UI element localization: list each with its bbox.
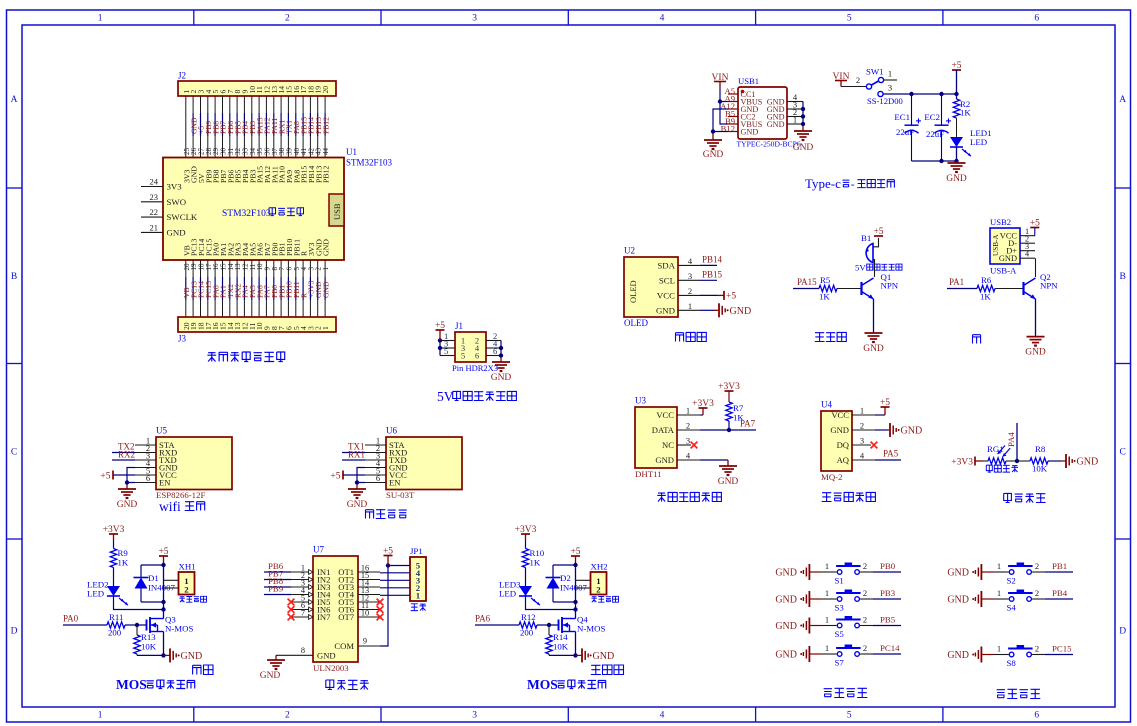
svg-text:OT7: OT7: [338, 612, 354, 622]
ground GND power rail: [946, 161, 967, 184]
svg-text:10: 10: [361, 609, 369, 618]
svg-text:PB15: PB15: [702, 269, 723, 279]
svg-text:U4: U4: [821, 400, 832, 410]
title display: [676, 332, 707, 341]
svg-text:SCL: SCL: [659, 275, 675, 285]
switch S7 pushbutton: [835, 645, 861, 668]
title buzzer: [815, 332, 847, 341]
wire R6 to Q2 base: [995, 288, 1024, 290]
ground GND U4 sideways: [875, 423, 922, 437]
connector USB2 USB-A: [990, 217, 1020, 276]
svg-text:4: 4: [660, 14, 665, 24]
wire net RX1: [342, 450, 365, 461]
svg-text:6: 6: [493, 346, 497, 356]
wire Q4 source to ground rail: [575, 632, 577, 656]
svg-text:SU-03T: SU-03T: [386, 490, 415, 500]
ground GND S7: [775, 646, 821, 662]
wire net PA4 vertical: [1006, 423, 1017, 461]
svg-text:GND: GND: [901, 426, 923, 437]
svg-text:1: 1: [98, 14, 103, 24]
svg-text:2: 2: [285, 711, 290, 721]
net label PA6: [475, 614, 519, 626]
junction PA4 divider: [1015, 459, 1019, 463]
svg-text:PA5: PA5: [883, 449, 899, 459]
svg-text:GND: GND: [491, 373, 512, 383]
wire net PB14: [700, 254, 723, 265]
svg-text:IN7: IN7: [317, 612, 331, 622]
svg-text:GND: GND: [947, 595, 969, 606]
svg-text:wifi: wifi: [159, 499, 181, 514]
wire XH1 pin2: [164, 587, 179, 589]
junction VIN-VBUS: [718, 99, 722, 103]
svg-text:2: 2: [184, 585, 189, 595]
svg-text:1: 1: [997, 643, 1001, 653]
U5 pin stubs: [135, 436, 156, 484]
svg-text:J3: J3: [178, 334, 187, 344]
wire GND pads to ground: [713, 109, 728, 140]
svg-text:PA15: PA15: [797, 277, 817, 287]
svg-text:2: 2: [1035, 643, 1039, 653]
capacitor EC2 22uF: [924, 94, 951, 161]
junctions bottom rail: [939, 159, 958, 163]
svg-text:1: 1: [997, 561, 1001, 571]
wire S8 to net PC15: [1032, 643, 1073, 654]
wire LED2 to drain rail: [114, 596, 164, 610]
wire +5 to D2: [553, 564, 576, 566]
IC U3 DHT11: [635, 396, 677, 480]
connector J1 Pin HDR2X3: [452, 321, 498, 373]
IC U1 STM32F103 minimal system: [163, 147, 393, 260]
LED LED3: [499, 580, 540, 606]
svg-text:A: A: [1119, 95, 1126, 105]
svg-text:2: 2: [1035, 588, 1039, 598]
svg-text:SS-12D00: SS-12D00: [867, 96, 903, 106]
svg-text:LED: LED: [499, 589, 516, 599]
USB port box on U1: [329, 194, 344, 226]
junction +5 COM node: [386, 563, 390, 567]
svg-text:PB3: PB3: [880, 588, 896, 598]
svg-text:USB1: USB1: [738, 76, 759, 86]
wire S7 to net PC14: [860, 643, 901, 654]
power +5 J1: [435, 321, 445, 341]
ground GND S4: [947, 591, 993, 607]
svg-text:GND: GND: [730, 306, 752, 317]
title MOS control output: [527, 677, 606, 692]
svg-text:Pin HDR2X3: Pin HDR2X3: [452, 363, 498, 373]
wire USB1 shield bus: [802, 102, 804, 132]
net labels J3 bus: [182, 280, 330, 298]
svg-text:COM: COM: [334, 641, 354, 651]
svg-text:GND: GND: [322, 239, 331, 256]
svg-text:PB4: PB4: [1052, 588, 1068, 598]
svg-text:U2: U2: [624, 246, 635, 256]
svg-text:5V: 5V: [855, 263, 866, 273]
LED LED2: [87, 580, 128, 606]
svg-text:GND: GND: [775, 621, 797, 632]
svg-text:3: 3: [686, 436, 690, 446]
title MCU minimal system: [207, 352, 284, 362]
U1 bottom pin numbers 20-1: [183, 263, 330, 271]
switch S1 pushbutton: [835, 563, 861, 586]
svg-text:GND: GND: [946, 174, 967, 184]
svg-text:C: C: [11, 447, 17, 457]
svg-text:PA6: PA6: [475, 614, 491, 624]
svg-text:1: 1: [321, 326, 330, 330]
power flag VIN at switch: [833, 72, 850, 87]
svg-text:1: 1: [686, 406, 690, 416]
svg-text:1: 1: [793, 115, 797, 125]
svg-text:J2: J2: [178, 71, 186, 81]
svg-text:J1: J1: [455, 321, 463, 331]
svg-text:24: 24: [150, 177, 159, 187]
svg-text:B: B: [1120, 272, 1126, 282]
svg-text:3V3: 3V3: [167, 182, 183, 192]
svg-text:D: D: [11, 627, 18, 637]
svg-text:D2: D2: [560, 573, 571, 583]
svg-text:U7: U7: [313, 545, 324, 555]
svg-text:S2: S2: [1007, 576, 1016, 586]
wire J1 left bus to +5: [439, 341, 441, 356]
svg-text:PA4: PA4: [1006, 432, 1016, 447]
power +3V3 U3 VCC: [692, 399, 714, 415]
power +5 stepper: [383, 546, 393, 565]
svg-text:3: 3: [860, 436, 864, 446]
svg-text:S4: S4: [1007, 603, 1017, 613]
svg-text:MOS: MOS: [527, 677, 558, 692]
svg-text:6: 6: [1034, 711, 1039, 721]
junction U6 EN: [355, 480, 359, 484]
svg-text:RX2: RX2: [118, 450, 135, 460]
svg-text:GND: GND: [947, 568, 969, 579]
wire GND to S8: [993, 643, 1009, 654]
svg-text:PB12: PB12: [321, 117, 330, 134]
svg-text:D: D: [1119, 627, 1126, 637]
ground GND Q3 sideways: [164, 648, 203, 662]
connector J3 pin header: [178, 317, 336, 344]
power +5 U6: [330, 471, 365, 482]
svg-text:10K: 10K: [141, 642, 157, 652]
svg-text:PA1: PA1: [949, 277, 964, 287]
wire JP1 pin5 to +5: [388, 565, 410, 567]
connector J2 pin header: [178, 71, 336, 97]
svg-text:6: 6: [1034, 14, 1039, 24]
svg-text:DQ: DQ: [837, 440, 850, 450]
junction LED rail: [161, 607, 165, 611]
wire Q3 drain connect: [163, 618, 165, 620]
ground GND S1: [775, 564, 821, 580]
svg-text:ULN2003: ULN2003: [313, 663, 349, 673]
title temp humidity sensor: [657, 492, 721, 501]
wire U3 GND to ground: [700, 460, 728, 466]
svg-text:1: 1: [416, 591, 420, 601]
svg-text:200: 200: [108, 628, 122, 638]
wire R11 to gate: [125, 624, 147, 626]
wire R12 to gate: [537, 624, 559, 626]
ground GND light divider: [1062, 454, 1098, 468]
svg-text:2: 2: [860, 421, 864, 431]
junction +5 node: [161, 563, 165, 567]
wire Q1 emitter to ground: [873, 299, 875, 333]
power +5 Q3: [158, 547, 168, 565]
svg-text:2: 2: [688, 286, 692, 296]
svg-text:GND: GND: [775, 650, 797, 661]
svg-text:7: 7: [301, 609, 305, 618]
svg-text:2: 2: [863, 614, 867, 624]
wire Q3 source to ground rail: [163, 632, 165, 656]
svg-text:U6: U6: [386, 426, 397, 436]
wire net RX2: [112, 450, 135, 461]
svg-text:GND: GND: [793, 143, 814, 153]
USB2 pin stubs: [1020, 227, 1035, 259]
USB1 left pads A5-B12 labels: [720, 86, 738, 134]
svg-text:AQ: AQ: [837, 455, 850, 465]
svg-text:5: 5: [461, 352, 465, 361]
svg-text:3: 3: [888, 83, 892, 93]
wire R5 to Q1 base: [837, 288, 862, 290]
ground GND lamp: [1025, 337, 1046, 358]
ground GND J1: [491, 362, 512, 383]
svg-text:OLED: OLED: [624, 318, 648, 328]
net label PA1: [947, 277, 977, 289]
ground GND Q4 sideways: [576, 648, 615, 662]
svg-text:GND: GND: [181, 651, 203, 662]
wire Q4 drain connect: [575, 618, 577, 620]
svg-text:+5: +5: [100, 471, 110, 481]
svg-text:1: 1: [688, 301, 692, 311]
svg-text:1: 1: [997, 588, 1001, 598]
ground GND U5: [117, 489, 138, 510]
svg-text:GND: GND: [260, 671, 281, 681]
svg-text:N-MOS: N-MOS: [577, 624, 605, 634]
wire SW1 pin1 stub: [884, 69, 897, 81]
wires nets PB6-PB9: [264, 561, 291, 595]
junction gate node: [547, 623, 551, 627]
wire main vertical to Q3 drain: [163, 565, 165, 619]
title Type-C power circuit: [805, 176, 894, 191]
svg-text:3: 3: [688, 271, 692, 281]
svg-text:GND: GND: [741, 127, 759, 136]
junction LED rail: [573, 607, 577, 611]
svg-text:1K: 1K: [118, 558, 129, 568]
svg-text:GND: GND: [117, 500, 138, 510]
U3 pin stubs: [677, 406, 700, 461]
title independent buttons left: [824, 688, 868, 697]
ground GND buzzer: [863, 333, 884, 354]
IC U4 MQ-2: [821, 400, 852, 483]
junction GND pads: [711, 129, 715, 133]
junctions power node: [909, 92, 958, 96]
svg-text:NC: NC: [662, 440, 674, 450]
wire USB2 GND to Q2 collector: [1035, 258, 1037, 277]
junction diode rail: [161, 600, 165, 604]
switch S3 pushbutton: [835, 590, 861, 613]
wire net TX1: [342, 442, 365, 453]
svg-text:A: A: [11, 95, 18, 105]
buzzer B1 5V active: [855, 233, 902, 273]
junction DATA R7: [727, 428, 731, 432]
switch S8 pushbutton: [1007, 645, 1033, 668]
wire D2 bottom rail: [553, 601, 576, 603]
svg-text:S3: S3: [835, 603, 845, 613]
svg-text:GND: GND: [1077, 457, 1099, 468]
svg-text:GND: GND: [167, 227, 186, 237]
svg-text:MOS: MOS: [116, 677, 147, 692]
svg-text:OLED: OLED: [628, 280, 638, 303]
svg-text:PA0: PA0: [63, 614, 79, 624]
wire U6 GND-EN bus: [357, 468, 365, 490]
svg-text:SW1: SW1: [866, 67, 884, 77]
svg-text:R9: R9: [118, 548, 129, 558]
ground GND S8: [947, 647, 993, 663]
svg-text:VCC: VCC: [831, 410, 849, 420]
resistor R13 10K pulldown: [134, 625, 157, 655]
title 模块: [159, 499, 205, 514]
svg-text:21: 21: [150, 222, 159, 232]
wire +5 down to COM: [380, 566, 388, 647]
svg-text:R8: R8: [1035, 444, 1046, 454]
svg-text:U5: U5: [156, 426, 167, 436]
svg-text:GND: GND: [1025, 348, 1046, 358]
IC U2 OLED display: [624, 246, 678, 329]
svg-text:U1: U1: [346, 147, 357, 157]
power +3V3 light divider: [951, 457, 983, 468]
title 语音识别: [366, 510, 407, 519]
power +3V3 R9: [103, 525, 125, 541]
junction ground rail: [161, 653, 165, 657]
wire VIN to SW1: [841, 75, 866, 87]
svg-text:S5: S5: [835, 629, 845, 639]
svg-text:GND: GND: [347, 500, 368, 510]
wire SW1 pin3 to +5 node: [883, 83, 956, 95]
wire GND to S5: [821, 614, 837, 625]
wire GND to S4: [993, 588, 1009, 599]
resistor R6 1K: [977, 275, 995, 302]
junction U5 EN: [125, 480, 129, 484]
svg-text:PC14: PC14: [880, 643, 900, 653]
svg-text:GND: GND: [999, 254, 1017, 263]
U4 pin stubs: [852, 406, 875, 461]
svg-text:PB9: PB9: [268, 584, 284, 594]
svg-text:S1: S1: [835, 576, 844, 586]
power +3V3 R7 top: [718, 382, 740, 392]
title 5V external backup power: [437, 389, 516, 404]
svg-text:N-MOS: N-MOS: [165, 624, 193, 634]
switch SW1 SS-12D00: [866, 67, 903, 107]
svg-text:1: 1: [98, 711, 103, 721]
wire S4 to net PB4: [1032, 588, 1073, 599]
svg-text:XH2: XH2: [591, 562, 608, 572]
junction gate node: [135, 623, 139, 627]
wire D1 bottom rail: [141, 601, 164, 603]
ground GND left of USB1: [703, 140, 724, 160]
svg-text:2: 2: [285, 14, 290, 24]
wire S1 to net PB0: [860, 561, 901, 572]
svg-text:DHT11: DHT11: [635, 469, 662, 479]
svg-text:23: 23: [150, 192, 159, 202]
svg-text:22: 22: [150, 207, 159, 217]
connector JP1 motor: [410, 546, 426, 611]
svg-text:1: 1: [888, 69, 892, 79]
svg-text:GND: GND: [767, 120, 785, 129]
wire ground rail: [549, 654, 576, 656]
svg-text:B1: B1: [861, 233, 871, 243]
diode D1 IN4007: [134, 565, 176, 602]
svg-text:6: 6: [376, 473, 380, 483]
resistor R2 1K: [953, 94, 971, 137]
wire AQ to PA5: [875, 449, 901, 461]
wire bus J2 to U1: [186, 96, 325, 157]
svg-text:C: C: [1120, 447, 1126, 457]
svg-text:GND: GND: [321, 281, 330, 298]
svg-text:3: 3: [472, 711, 477, 721]
svg-text:R10: R10: [530, 548, 545, 558]
svg-text:1: 1: [825, 561, 829, 571]
ground GND U7: [260, 660, 285, 681]
svg-text:+3V3: +3V3: [951, 458, 973, 468]
svg-text:NPN: NPN: [881, 281, 899, 291]
svg-text:1K: 1K: [530, 558, 541, 568]
svg-text:XH1: XH1: [179, 562, 196, 572]
svg-text:R11: R11: [109, 612, 123, 622]
svg-text:6: 6: [475, 352, 479, 361]
svg-text:PC15: PC15: [1052, 643, 1072, 653]
svg-text:1K: 1K: [733, 413, 744, 423]
diode D2 IN4007: [546, 565, 588, 602]
wire U5 GND-EN bus: [127, 468, 135, 490]
title smoke sensor: [822, 492, 876, 501]
svg-text:U3: U3: [635, 396, 646, 406]
IC U6 SU-03T: [386, 426, 462, 501]
svg-text:+5: +5: [726, 292, 736, 302]
svg-text:3: 3: [472, 14, 477, 24]
title stepper motor: [326, 680, 369, 690]
svg-text:STM32F103: STM32F103: [346, 158, 393, 168]
junctions J1 right: [499, 346, 503, 358]
ground GND S5: [775, 618, 821, 634]
svg-text:20: 20: [321, 86, 330, 94]
svg-text:DATA: DATA: [652, 425, 675, 435]
wire XH2 pin1: [576, 579, 591, 581]
svg-text:1: 1: [825, 643, 829, 653]
svg-text:5: 5: [444, 346, 448, 356]
svg-text:D1: D1: [148, 573, 159, 583]
wire J1 right bus to ground: [500, 341, 502, 363]
svg-text:PB1: PB1: [1052, 561, 1067, 571]
capacitor EC1 22uF: [894, 94, 921, 161]
svg-text:VCC: VCC: [656, 410, 674, 420]
power flag VIN: [712, 73, 729, 87]
wire bus U1 to J3: [186, 260, 325, 317]
wire B1 top to +5: [873, 238, 879, 247]
U7 right pin stubs: [358, 564, 380, 646]
U1 top pin numbers 25-44: [183, 148, 330, 156]
wire VIN to VBUS pins: [720, 87, 728, 124]
svg-text:-: -: [851, 179, 855, 191]
svg-text:SWO: SWO: [167, 197, 187, 207]
svg-text:NPN: NPN: [1040, 281, 1058, 291]
svg-text:2: 2: [1035, 561, 1039, 571]
wire B1 bottom to Q1 collector: [873, 260, 875, 277]
junctions shield bus: [801, 107, 805, 126]
power +5 U4 VCC: [875, 398, 890, 415]
junctions J1 left: [438, 338, 442, 350]
svg-text:+5: +5: [330, 471, 340, 481]
svg-text:1K: 1K: [819, 292, 830, 302]
resistor R9 1K: [110, 541, 129, 586]
svg-text:10K: 10K: [553, 642, 569, 652]
power +5 U2 VCC: [700, 291, 736, 302]
resistor R8 10K: [1017, 444, 1062, 474]
